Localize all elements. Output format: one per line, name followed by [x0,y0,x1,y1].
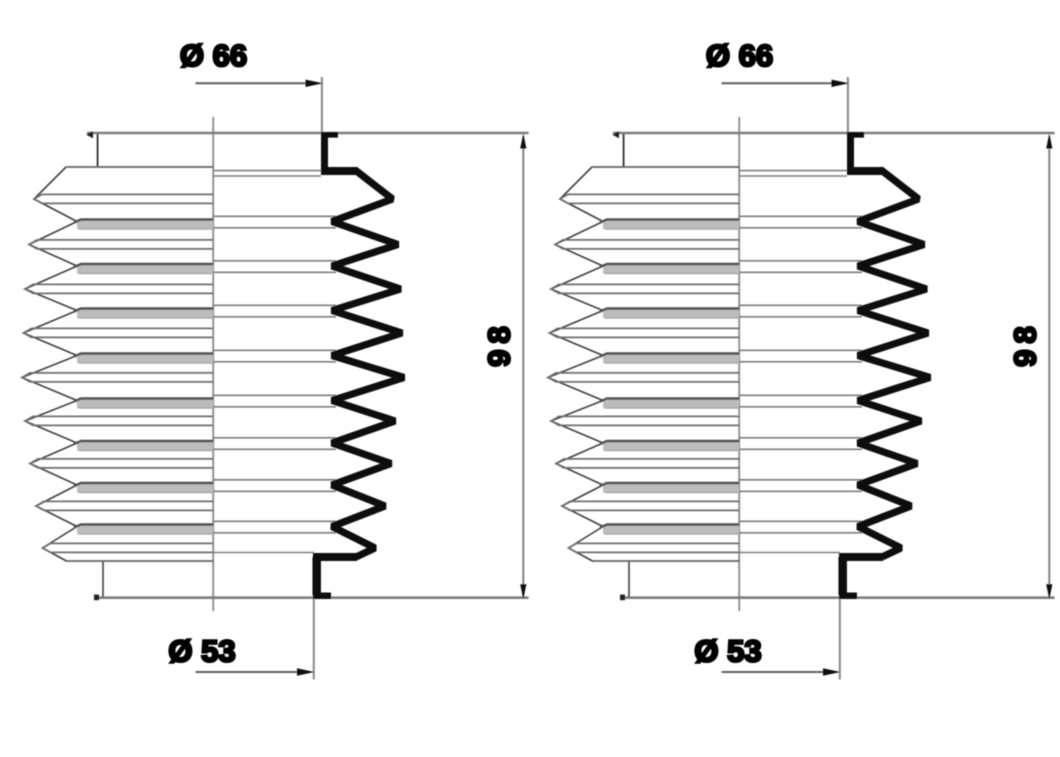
valley bottom edge lines [605,229,739,534]
svg-text:98: 98 [482,320,517,366]
top shoulder line [66,166,213,168]
profile bottom collar bar [312,557,321,595]
right valley crease lines [213,216,336,533]
dimension D66 arrow [832,80,850,87]
dimension D66 arrow [306,80,324,87]
bottom cap left blob [94,595,99,601]
top shoulder diagonal [560,167,592,199]
right valley crease lines [739,216,862,533]
centerline [738,117,740,611]
bottom collar tick [102,561,104,597]
top collar tick [623,134,625,167]
bellows thick profile [332,170,404,558]
dimension D53 line [722,671,826,673]
section pleat diagonals [548,199,603,548]
centerline [212,117,214,611]
section pleat diagonals [22,199,77,548]
valley top edge lines [600,220,739,528]
bottom shoulder line [66,560,213,562]
valley top edge lines [74,220,213,528]
dimension D66 line [722,82,835,84]
dimension D66 line [196,82,309,84]
top shoulder diagonal [34,167,66,199]
svg-text:Ø 66: Ø 66 [180,38,247,73]
bottom shoulder line [592,560,739,562]
dimension 98 top arrow [520,134,526,149]
bottom shoulder diagonal [43,548,67,561]
left bellows drawing [22,38,529,680]
top cap line [87,132,529,135]
pleat tip fold lines [548,194,739,552]
bottom collar tick [628,561,630,597]
dimension 98 bottom arrow [1046,584,1052,599]
svg-text:Ø 53: Ø 53 [694,634,761,669]
profile top collar bar [321,133,328,173]
bottom cap line [621,596,1055,599]
top shoulder line [592,166,739,168]
dimension D53 extension line [839,599,841,680]
valley shaded bands [603,220,739,229]
valley shaded bands [77,220,213,229]
pleat tip fold lines [22,194,213,552]
dimension D66 extension line [847,77,849,132]
dimension 98 line [522,136,524,597]
right bellows drawing [548,38,1055,680]
dimension D53 arrow [297,668,315,675]
bottom cap line [95,596,529,599]
dimension D66 extension line [321,77,323,132]
bottom cap left blob [620,595,625,601]
dimension D53 line [196,671,300,673]
dimension D53 arrow [823,668,841,675]
right step line bottom [213,552,314,554]
top cap left arrowhead [612,131,619,138]
svg-text:98: 98 [1008,320,1043,366]
svg-text:Ø 53: Ø 53 [168,634,235,669]
bottom shoulder diagonal [569,548,593,561]
right step lines top [213,170,321,172]
right step lines top [739,170,847,172]
dimension 98 line [1048,136,1050,597]
dimension 98 top arrow [1046,134,1052,149]
svg-text:Ø 66: Ø 66 [706,38,773,73]
top cap left arrowhead [86,131,93,138]
top collar tick [97,134,99,167]
valley bottom edge lines [79,229,213,534]
bellows thick profile [858,170,930,558]
right step line bottom [739,552,840,554]
profile top collar bar [847,133,854,173]
dimension D53 extension line [313,599,315,680]
top cap line [613,132,1055,135]
profile bottom collar bar [838,557,847,595]
dimension 98 bottom arrow [520,584,526,599]
